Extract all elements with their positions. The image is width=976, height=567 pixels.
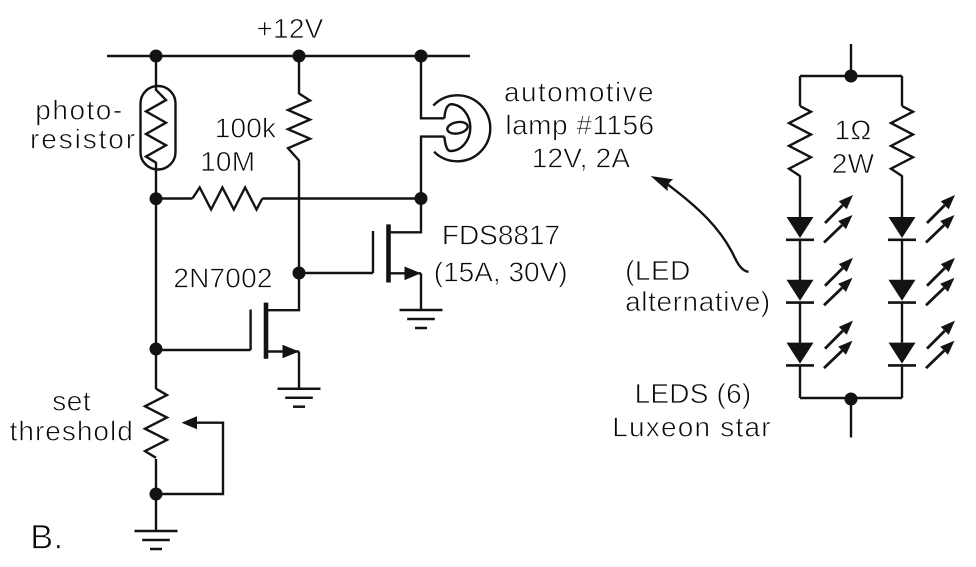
node: junction dot top of LED string [845, 70, 858, 83]
svg-text:1Ω: 1Ω [835, 115, 872, 146]
svg-text:LEDS (6): LEDS (6) [635, 378, 752, 409]
annotation arrow: LED alternative to lamp [651, 176, 749, 272]
wire: lamp lower terminal down to drain node [421, 137, 444, 199]
label LEDS (6) Luxeon star [612, 378, 772, 443]
ground: FDS8817 source [400, 310, 443, 328]
svg-text:12V, 2A: 12V, 2A [532, 143, 631, 174]
transistor Q1 2N7002 gate wire [156, 349, 251, 351]
svg-text:FDS8817: FDS8817 [442, 220, 560, 251]
label photo-resistor [30, 95, 137, 155]
svg-text:lamp #1156: lamp #1156 [505, 110, 654, 141]
resistor 10M [156, 188, 421, 210]
svg-text:B.: B. [30, 519, 63, 557]
node: junction dot lamp bottom / FDS8817 drain [415, 192, 428, 205]
label set threshold [10, 386, 134, 447]
svg-text:photo-: photo- [35, 95, 123, 126]
+12V supply rail [107, 55, 470, 57]
label 1-ohm 2W [832, 115, 875, 180]
LED D3 [786, 343, 814, 366]
potentiometer set-threshold [145, 349, 167, 494]
LED D2 [786, 280, 814, 303]
node: junction dot at FDS8817 gate / 2N7002 drain [293, 267, 306, 280]
wire: LED3 to bottom bar [799, 366, 801, 399]
LED D5 [888, 280, 916, 303]
lamp #1156 bulb [433, 95, 490, 161]
ground: 2N7002 source [278, 389, 321, 407]
wire: node A down to gate node of 2N7002 [155, 199, 157, 349]
svg-text:(LED: (LED [625, 255, 691, 286]
wire: LED5 to LED6 [901, 303, 903, 343]
svg-text:10M: 10M [200, 146, 255, 177]
wire: LED2 to LED3 [799, 303, 801, 343]
LED D5 emission arrows [926, 258, 955, 306]
wire: left branch top [799, 76, 801, 106]
wire: photoresistor to node A [155, 162, 157, 199]
wire: pot bottom to ground [155, 494, 157, 531]
LED D2 emission arrows [824, 258, 853, 306]
transistor Q2 FDS8817 gate wire [299, 272, 373, 274]
wire: 100k down to FDS8817 gate node (crosses 10M) [298, 160, 300, 273]
resistor 1 ohm left [789, 106, 811, 176]
svg-text:resistor: resistor [30, 124, 137, 155]
LED D1 emission arrows [824, 195, 853, 243]
node: rail junction dot at lamp [415, 50, 428, 63]
wire: LED6 to bottom bar [901, 366, 903, 399]
LED D6 [888, 343, 916, 366]
ground: pot bottom [135, 531, 178, 549]
wire: bottom bar of LED string [800, 397, 902, 399]
wire: bottom stub of LED string [850, 399, 852, 438]
label (LED alternative) [625, 255, 771, 317]
svg-text:(15A, 30V): (15A, 30V) [434, 257, 568, 288]
label automotive lamp #1156 12V, 2A [504, 77, 655, 174]
potentiometer wiper arrow [156, 416, 223, 494]
wire: LED4 to LED5 [901, 240, 903, 280]
wire: rail to photoresistor [155, 56, 157, 91]
svg-text:2N7002: 2N7002 [173, 263, 272, 294]
wire: LED1 to LED2 [799, 240, 801, 280]
photoresistor R1 [141, 86, 176, 170]
LED D6 emission arrows [926, 321, 955, 369]
LED D4 [888, 217, 916, 240]
node: rail junction dot at 100k [293, 50, 306, 63]
wire: top stub of LED string [850, 44, 852, 76]
node: junction dot at 2N7002 gate wire / pot top [150, 343, 163, 356]
wire: rail down to lamp upper terminal [421, 56, 444, 118]
svg-text:set: set [52, 386, 91, 417]
node A junction dot (photoresistor / 10M) [150, 192, 163, 205]
wire: left 1-ohm to LED1 [799, 176, 801, 218]
LED D3 emission arrows [824, 321, 853, 369]
transistor Q2 FDS8817 symbol [373, 199, 421, 310]
svg-text:100k: 100k [215, 113, 277, 144]
wire: rail to 100k [298, 56, 300, 94]
LED D4 emission arrows [926, 195, 955, 243]
label FDS8817 (15A, 30V) [434, 220, 568, 288]
resistor 1 ohm right [891, 106, 913, 176]
svg-text:2W: 2W [832, 148, 875, 179]
wire: top bar of LED string [800, 75, 902, 77]
svg-text:+12V: +12V [257, 13, 324, 44]
svg-text:Luxeon star: Luxeon star [612, 412, 772, 443]
svg-text:threshold: threshold [10, 416, 134, 447]
LED D1 [786, 217, 814, 240]
transistor Q1 2N7002 symbol [251, 273, 299, 389]
resistor 100k [288, 94, 310, 161]
node: junction dot bottom of LED string [845, 393, 858, 406]
svg-text:automotive: automotive [504, 77, 655, 108]
node: junction dot pot bottom [150, 488, 163, 501]
wire: right branch top [901, 76, 903, 106]
wire: right 1-ohm to LED4 [901, 176, 903, 218]
node: rail junction dot at photoresistor [150, 50, 163, 63]
svg-text:alternative): alternative) [625, 286, 771, 317]
